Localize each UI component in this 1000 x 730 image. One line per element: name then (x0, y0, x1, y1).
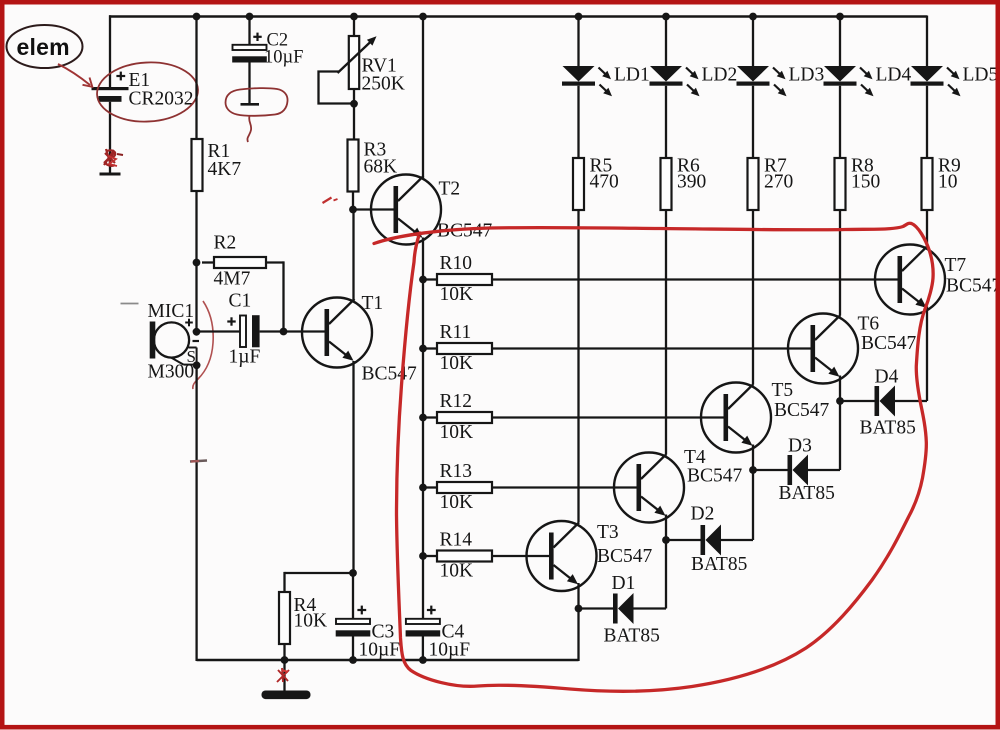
wire: bus down to C4 (422, 556, 424, 619)
label T3 BC547 (597, 522, 653, 567)
wire: R5 down to T3 collector (577, 210, 579, 523)
label R14 10K (440, 530, 474, 582)
label R9 10 (938, 156, 961, 193)
wire: mic plus node to C1 (197, 330, 241, 332)
svg-text:R11: R11 (440, 322, 472, 343)
annotation: small dash left of MIC1 (121, 303, 139, 305)
wire: R13 to T4 base (492, 486, 637, 488)
wire: LD1 cathode to R5 (577, 86, 579, 158)
label D3 BAT85 (779, 436, 835, 505)
annotation: red cross at ground stem (277, 668, 289, 682)
wire: R8 down to T6 collector (839, 210, 841, 315)
wire: top supply rail (109, 15, 927, 18)
svg-text:BC547: BC547 (597, 546, 653, 567)
battery E1 CR2032 (92, 72, 129, 102)
transistor T1 BC547 (302, 298, 372, 368)
svg-text:LD4: LD4 (876, 65, 912, 86)
transistor T6 BC547 (788, 314, 858, 384)
LED LD5 (911, 66, 961, 96)
resistor R6 390 (661, 158, 672, 210)
label T2 BC547 (437, 179, 493, 242)
svg-text:R14: R14 (440, 530, 473, 551)
svg-text:CR2032: CR2032 (129, 89, 194, 110)
label T7 BC547 (945, 255, 1000, 297)
svg-text:BAT85: BAT85 (779, 483, 835, 504)
svg-text:T6: T6 (858, 314, 880, 335)
diode D2 BAT85 (701, 525, 722, 556)
annotation: red freehand loop around transistor array (374, 223, 933, 691)
wire: R7 down to T5 collector (752, 210, 754, 384)
svg-text:10K: 10K (440, 492, 474, 513)
LED LD4 (824, 66, 874, 96)
wire: T2 emitter to R10 bus (422, 238, 424, 280)
label R6 390 (677, 156, 706, 193)
svg-text:BC547: BC547 (687, 466, 743, 487)
transistor T5 BC547 (701, 383, 771, 453)
svg-text:BAT85: BAT85 (604, 626, 660, 647)
svg-text:elem: elem (17, 34, 70, 60)
wire: diode D4 left lead (840, 400, 875, 402)
wire: R3 bottom to junction (352, 192, 354, 210)
node: top rail junction dots (193, 13, 844, 21)
node: RV1 bottom junction (350, 100, 358, 108)
wire: LD5 cathode to R9 (926, 86, 928, 158)
transistor T3 BC547 (527, 521, 597, 591)
node: R10 bus junction (419, 276, 427, 284)
svg-text:10K: 10K (440, 284, 474, 305)
annotation: red scribble at battery ground (104, 149, 123, 166)
wire: battery top lead (109, 15, 111, 87)
wire: LD3 cathode to R7 (752, 86, 754, 158)
transistor T7 BC547 (875, 245, 945, 315)
wire: bottom ground rail (197, 659, 579, 662)
potentiometer RV1 250K (338, 36, 377, 89)
label LD4 (876, 65, 912, 86)
svg-text:T2: T2 (439, 179, 461, 200)
svg-text:D3: D3 (788, 436, 812, 457)
wire: D1 row down to bottom rail (577, 609, 579, 662)
wire: R11 to T6 base (492, 347, 811, 349)
wire: top rail to LED LD3 (752, 17, 754, 67)
svg-text:10µF: 10µF (264, 48, 303, 68)
label LD3 (789, 65, 825, 86)
svg-text:T3: T3 (597, 522, 619, 543)
wire: C4 bottom to rail (422, 634, 424, 661)
wire: R4 bottom to rail (283, 644, 285, 661)
svg-text:270: 270 (764, 172, 793, 193)
wire: battery negative lead (109, 102, 111, 174)
node: mic plus node (193, 328, 201, 336)
transistor T4 BC547 (614, 453, 684, 523)
wire: top rail to C2 (248, 17, 250, 46)
label R10 10K (440, 253, 474, 305)
svg-text:10K: 10K (440, 422, 474, 443)
svg-text:4K7: 4K7 (208, 159, 242, 180)
resistor R4 10K (279, 592, 290, 644)
svg-text:T7: T7 (945, 255, 967, 276)
wire: C3 bottom to rail (352, 634, 354, 661)
label MIC1 (148, 301, 195, 322)
svg-text:C1: C1 (229, 291, 252, 312)
label RV1 250K (362, 56, 405, 95)
svg-text:150: 150 (851, 172, 880, 193)
svg-text:LD5: LD5 (963, 65, 999, 86)
svg-text:4M7: 4M7 (214, 269, 251, 290)
svg-text:470: 470 (590, 172, 619, 193)
annotation: red curve near microphone (193, 301, 213, 389)
annotation: elem callout ellipse (7, 25, 83, 68)
wire: RV1 to R3 (353, 89, 355, 139)
capacitor C4 10uF (406, 606, 441, 637)
wire: C3 top lead (352, 573, 354, 619)
capacitor C3 10uF (336, 606, 371, 637)
node: T5 emitter junction (749, 466, 757, 474)
label R3 68K (364, 140, 398, 178)
microphone MIC1 M300 (150, 319, 199, 365)
wire: R10 to T7 base (492, 278, 898, 280)
svg-text:T1: T1 (362, 293, 384, 314)
label T4 BC547 (684, 447, 743, 487)
wire: T6 emitter to node (839, 376, 841, 402)
diode D4 BAT85 (875, 386, 896, 417)
node: R11 bus junction (419, 345, 427, 353)
svg-text:LD3: LD3 (789, 65, 825, 86)
label R7 270 (764, 156, 793, 193)
node: T3 emitter junction (575, 605, 583, 613)
svg-text:390: 390 (677, 172, 706, 193)
annotation: red tick near R2 area (323, 198, 338, 204)
svg-text:10K: 10K (440, 353, 474, 374)
resistor R13 10K (423, 482, 492, 493)
wire: C2 bottom to open terminal (248, 61, 250, 104)
svg-text:10: 10 (938, 172, 958, 193)
svg-text:BAT85: BAT85 (860, 418, 916, 439)
resistor R5 470 (573, 158, 584, 210)
label S (187, 347, 196, 366)
annotation: red tick on left wire (190, 461, 207, 462)
annotation: red ellipse around C2 terminal (226, 88, 288, 142)
wire: R6 down to T4 collector (665, 210, 667, 454)
wire: mic shield to bottom rail (195, 365, 197, 661)
label R2 4M7 (214, 233, 251, 290)
label elem (17, 34, 70, 60)
label LD2 (702, 65, 738, 86)
wire: diode D1 left lead (579, 607, 614, 609)
svg-text:1µF: 1µF (229, 347, 261, 368)
label M300 (148, 362, 195, 383)
wire: T2 collector to top rail (422, 17, 424, 180)
node: R14 bus junction (419, 552, 427, 560)
svg-text:R12: R12 (440, 391, 473, 412)
wire: diode D1 right lead (634, 540, 667, 609)
wire: LD4 cathode to R8 (839, 86, 841, 158)
terminal bar below C2 (241, 103, 260, 106)
wire: R10-R14 bus segment (422, 280, 424, 557)
svg-text:LD2: LD2 (702, 65, 738, 86)
capacitor C2 10uF (232, 33, 267, 63)
label D1 BAT85 (604, 573, 660, 647)
label R5 470 (590, 156, 619, 193)
node: R1/R2 junction (193, 259, 201, 267)
LED LD2 (650, 66, 700, 96)
wire: top rail to LED LD5 (926, 16, 928, 67)
wire: R2 right elbow down to C1/T1 base node (266, 261, 284, 331)
node: bottom rail junctions (281, 656, 427, 664)
wire: diode D2 right lead (721, 470, 753, 540)
wire: R1 bottom to mic plus node (195, 191, 197, 332)
label C2 10uF (264, 31, 303, 68)
node: T4 emitter junction (662, 536, 670, 544)
node: T1 emitter / R4 / C3 junction (349, 569, 357, 577)
wire: C1 to T1 base (260, 330, 325, 332)
wire: top rail to LED LD1 (577, 17, 579, 67)
wire: LD2 cathode to R6 (665, 86, 667, 158)
annotation: red ellipse around battery (96, 60, 200, 124)
node: R13 bus junction (419, 484, 427, 492)
wire: diode D2 left lead (666, 539, 701, 541)
wire: T4 emitter to node (665, 515, 667, 541)
wire: T1 collector to R3 node (352, 210, 354, 301)
ground symbol (262, 691, 311, 700)
svg-text:10K: 10K (440, 561, 474, 582)
label R11 10K (440, 322, 474, 374)
diode D1 BAT85 (613, 593, 634, 624)
label R12 10K (440, 391, 474, 443)
svg-text:D2: D2 (691, 504, 715, 525)
svg-text:MIC1: MIC1 (148, 301, 195, 322)
label C3 10uF (359, 622, 401, 661)
LED LD1 (562, 66, 612, 96)
svg-text:R2: R2 (214, 233, 237, 254)
diode D3 BAT85 (788, 455, 809, 486)
label R13 10K (440, 461, 474, 513)
svg-text:BC547: BC547 (774, 400, 830, 421)
wire: ground stem (283, 660, 285, 691)
label T5 BC547 (772, 380, 830, 421)
node: mic shield node (193, 361, 201, 369)
node: T6 emitter junction (836, 397, 844, 405)
wire: T3 emitter to node (577, 583, 579, 609)
wire: R4 elbow (285, 572, 354, 592)
wire: diode D3 right lead (808, 401, 840, 470)
wire: T2 base lead (353, 208, 394, 210)
resistor R7 270 (748, 158, 759, 210)
label C1 1uF (229, 291, 261, 368)
label R4 10K (294, 595, 328, 632)
label R1 4K7 (208, 141, 242, 180)
resistor R11 10K (423, 343, 492, 354)
label D4 BAT85 (860, 367, 916, 439)
wire: R12 to T5 base (492, 416, 724, 418)
svg-text:BC547: BC547 (861, 333, 917, 354)
label D2 BAT85 (691, 504, 748, 576)
svg-text:68K: 68K (364, 157, 398, 178)
label LD1 (614, 65, 650, 86)
node: C1 / R2 / T1 base junction (280, 328, 288, 336)
wire: diode D3 left lead (753, 469, 788, 471)
annotation: red arrow from elem to battery (58, 64, 92, 87)
svg-text:D4: D4 (875, 367, 899, 388)
wire: top rail to R1 (195, 17, 197, 140)
svg-text:10µF: 10µF (429, 640, 471, 661)
wire: top rail to LED LD4 (839, 17, 841, 67)
svg-text:BC547: BC547 (362, 364, 418, 385)
wire: T5 emitter to node (752, 445, 754, 471)
capacitor C1 1uF (227, 315, 259, 347)
svg-text:BC547: BC547 (946, 276, 1000, 297)
svg-text:LD1: LD1 (614, 65, 650, 86)
svg-text:BAT85: BAT85 (691, 554, 747, 575)
resistor R14 10K (423, 551, 492, 562)
resistor R10 10K (423, 274, 492, 285)
wire: T1 emitter down to C3 node (352, 361, 354, 573)
resistor R12 10K (423, 412, 492, 423)
node: R3 / T2 base / T1 collector junction (349, 206, 357, 214)
svg-text:10µF: 10µF (359, 640, 401, 661)
wire: top rail to LED LD2 (665, 17, 667, 67)
svg-text:250K: 250K (362, 74, 405, 95)
transistor T2 BC547 (371, 175, 441, 245)
resistor R3 68K (348, 140, 359, 192)
resistor R2 4M7 (202, 257, 266, 268)
wire: RV1 wiper link (319, 72, 353, 104)
resistor R8 150 (835, 158, 846, 210)
wire: top rail to RV1 (353, 17, 355, 37)
node: R12 bus junction (419, 414, 427, 422)
svg-text:D1: D1 (612, 573, 636, 594)
label E1 CR2032 (129, 70, 194, 110)
svg-text:10K: 10K (294, 611, 328, 632)
label LD5 (963, 65, 999, 86)
wire: T7 emitter down to D4 (926, 307, 928, 402)
label T6 BC547 (858, 314, 917, 355)
svg-text:T5: T5 (772, 380, 794, 401)
svg-text:R13: R13 (440, 461, 473, 482)
wire: diode D4 right lead (895, 400, 927, 402)
wire: R9 down to T7 collector (926, 210, 928, 246)
label T1 BC547 (362, 293, 418, 385)
wire: R14 to T3 base (492, 555, 549, 557)
svg-text:R10: R10 (440, 253, 473, 274)
LED LD3 (737, 66, 787, 96)
label R8 150 (851, 156, 880, 193)
label C4 10uF (429, 622, 471, 661)
resistor R1 4K7 (192, 139, 203, 191)
ground (battery) (100, 173, 121, 176)
resistor R9 10 (922, 158, 933, 210)
